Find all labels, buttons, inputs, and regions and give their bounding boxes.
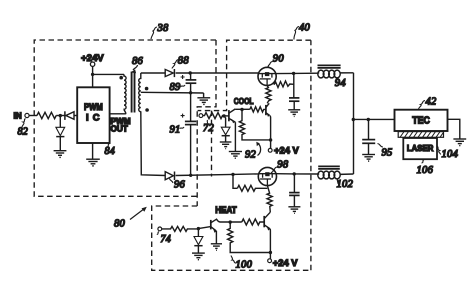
svg-text:104: 104: [442, 149, 459, 160]
wire rail diode96 to MOSFET98: [176, 174, 259, 176]
wire Q1 emitter to ground: [234, 122, 236, 151]
svg-text:100: 100: [236, 260, 253, 271]
diode 88: [165, 69, 174, 77]
node heat input terminal 74: [158, 227, 162, 231]
label 40: [294, 23, 311, 40]
label 80 with arrow: [114, 207, 147, 230]
resistor 74 input: [162, 226, 199, 231]
ground G2: [86, 159, 100, 166]
svg-text:LASER: LASER: [407, 143, 434, 153]
label 90: [267, 54, 285, 68]
node junction cap95: [367, 118, 370, 121]
PWM IC 84: [77, 87, 109, 143]
svg-text:HEAT: HEAT: [215, 205, 237, 215]
svg-text:74: 74: [161, 234, 172, 245]
ground G3: [197, 98, 210, 105]
wire PWM OUT stub: [110, 110, 126, 114]
node junction cap89 bottom: [189, 91, 192, 94]
label 72: [203, 120, 215, 134]
label 84: [105, 144, 116, 158]
transistor Q2: [266, 103, 270, 116]
node junction TEC branch: [352, 118, 355, 121]
wire to TEC: [353, 118, 394, 120]
svg-text:82: 82: [18, 127, 29, 138]
wire Q4 emitter down: [269, 229, 271, 259]
ground G8: [192, 253, 205, 260]
svg-text:92: 92: [245, 150, 257, 161]
label 104: [437, 146, 458, 160]
node junction cool: [222, 114, 225, 117]
ground G5: [229, 152, 242, 159]
node junction gate resistor: [231, 173, 234, 176]
wire junction to transformer primary top: [93, 73, 124, 75]
diode D2 cool clamp: [221, 116, 230, 142]
MOSFET 98: [258, 167, 276, 185]
svg-text:98: 98: [277, 159, 289, 170]
resistor R4 cool base: [250, 107, 266, 112]
pin label PWM OUT: [111, 117, 131, 134]
node junction R100: [229, 220, 232, 223]
svg-text:80: 80: [114, 219, 126, 230]
resistor R6 gate90: [266, 86, 271, 104]
label 82: [18, 119, 29, 138]
svg-text:OUT: OUT: [111, 124, 128, 133]
capacitor 91: [181, 93, 197, 175]
dashed box 38 outline: [34, 40, 216, 206]
resistor R8 gate98 input: [237, 185, 267, 191]
resistor 100: [228, 222, 271, 252]
label 95: [378, 144, 393, 159]
svg-text:96: 96: [174, 180, 186, 191]
label 102: [337, 179, 354, 190]
svg-text:102: 102: [337, 179, 354, 190]
svg-text:40: 40: [299, 23, 311, 34]
resistor R5 pullup: [239, 110, 270, 140]
resistor R1 input: [37, 112, 56, 118]
ground G1: [54, 151, 67, 158]
label 42: [419, 96, 438, 109]
wire TEC right to ground: [448, 119, 460, 139]
capacitor C3 snubber90: [289, 98, 299, 110]
ground G11: [453, 139, 466, 146]
diode D3 heat clamp: [194, 229, 203, 253]
label 92 with arrow: [245, 142, 261, 161]
node cool input terminal: [199, 114, 203, 118]
transistor Q1: [229, 109, 236, 123]
capacitor 95: [362, 120, 375, 155]
resistor R10 gate98: [267, 186, 272, 213]
capacitor 89: [181, 73, 197, 93]
svg-text:91: 91: [170, 124, 181, 135]
inductor 94 winding: [318, 70, 354, 78]
svg-text:IC: IC: [86, 111, 100, 122]
node junction cap98: [293, 172, 296, 175]
diode D4 input clamp: [56, 127, 65, 150]
transformer 86 core: [132, 72, 135, 113]
node junction heat: [197, 227, 200, 230]
wire secondary top tap to diode 88: [141, 72, 165, 74]
wire transformer mid tap to ground: [141, 91, 204, 94]
resistor R7 snubber90: [274, 81, 294, 88]
wire +24V down to junction: [92, 66, 94, 87]
wire PWM IC to ground: [92, 143, 94, 159]
resistor 72: [203, 113, 224, 119]
svg-text:106: 106: [417, 165, 434, 176]
wire right rail vertical: [353, 73, 355, 174]
wire L to gate resistor: [233, 174, 237, 188]
label 96: [170, 179, 186, 191]
wire diode 88 to rail: [176, 72, 259, 74]
dashed box 40 outline: [198, 40, 311, 270]
svg-text:72: 72: [203, 123, 215, 134]
svg-text:90: 90: [273, 54, 285, 65]
wire node to Q3 base: [198, 227, 210, 229]
node junction: [91, 73, 94, 76]
node junction at +24: [269, 138, 272, 141]
ground G9: [288, 207, 300, 214]
transformer 86 secondary winding: [139, 73, 141, 112]
svg-text:88: 88: [178, 56, 190, 67]
inductor 94 core: [318, 65, 341, 68]
label 98: [271, 159, 289, 173]
node junction cap89 top: [189, 71, 192, 74]
transformer 86 primary winding: [124, 74, 126, 109]
wire MOSFET98 to inductor102: [277, 173, 319, 175]
thermal pad hatch 104: [398, 132, 443, 138]
inductor 102 winding: [318, 171, 354, 179]
svg-text:+24 V: +24 V: [273, 257, 299, 268]
label 106: [417, 160, 434, 176]
label 86 with arrow: [131, 56, 144, 73]
wire node to Q1 base: [224, 115, 229, 117]
laser diode block 106: [403, 138, 437, 159]
label 94: [335, 78, 347, 89]
ground G4: [220, 142, 232, 149]
node junction +24 bottom: [269, 251, 272, 254]
wire Q2 emitter down: [269, 116, 272, 150]
svg-text:+24 V: +24 V: [274, 145, 300, 156]
node junction: [59, 114, 62, 117]
transistor Q4: [264, 212, 270, 230]
label 38: [151, 23, 169, 39]
node +24V heat terminal: [268, 257, 299, 268]
dashed box 80 heat outline: [152, 206, 311, 270]
svg-text:84: 84: [105, 146, 116, 157]
TEC module 42: [395, 110, 448, 131]
wire Q1 collector rail: [235, 108, 249, 110]
node +24V cool terminal: [268, 145, 299, 156]
ground G6: [288, 110, 300, 117]
label 74: [157, 232, 171, 246]
label 100: [231, 256, 253, 271]
MOSFET 90: [258, 67, 276, 85]
svg-text:42: 42: [426, 96, 438, 107]
wire Q3 emitter to ground: [215, 231, 217, 244]
svg-text:TEC: TEC: [412, 116, 430, 127]
diode 96: [165, 172, 174, 181]
svg-text:38: 38: [157, 23, 170, 34]
node junction snubber top: [292, 72, 295, 75]
phase dot secondary lower: [145, 108, 149, 112]
label 89: [170, 82, 186, 93]
svg-text:95: 95: [382, 147, 393, 158]
svg-text:COOL: COOL: [234, 96, 254, 106]
ground G7: [211, 244, 222, 251]
node IN terminal: [14, 112, 30, 121]
node junction cap91 rail: [189, 174, 192, 177]
resistor R9 heat base: [242, 219, 264, 225]
node junction pullup: [240, 108, 243, 111]
wire stub to ground G3: [203, 93, 205, 98]
svg-text:89: 89: [170, 82, 182, 93]
diode D1 input: [65, 111, 77, 120]
wire MOSFET90 to inductor: [276, 72, 318, 74]
wire node down: [59, 116, 61, 128]
wire Q3 collector rail: [220, 221, 242, 223]
wire snubber vertical: [293, 73, 295, 97]
label 88: [172, 56, 189, 69]
wire secondary bottom to rail: [141, 111, 165, 175]
node +24V top terminal: [81, 53, 104, 67]
phase dot primary: [119, 76, 123, 80]
phase dot secondary upper: [145, 87, 149, 91]
wire IN to resistor: [29, 115, 37, 117]
inductor 102 core: [318, 166, 340, 169]
capacitor C4 snubber98: [289, 174, 300, 207]
ground G10: [362, 155, 375, 162]
svg-text:IN: IN: [14, 112, 22, 121]
label 91: [170, 124, 185, 135]
transistor Q3: [211, 219, 220, 233]
wire resistor to node: [56, 115, 65, 117]
